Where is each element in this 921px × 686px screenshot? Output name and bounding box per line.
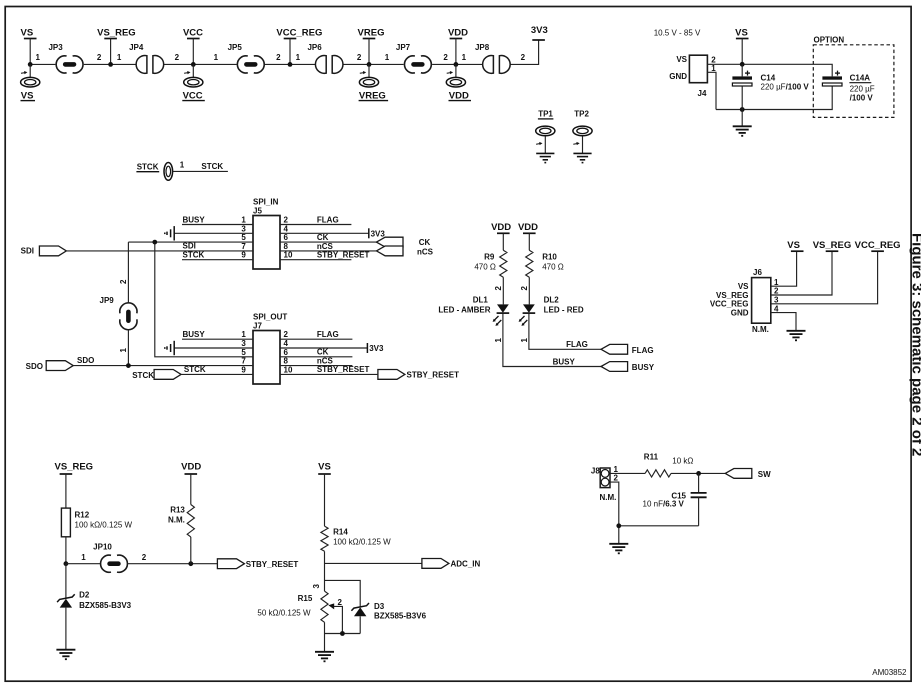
svg-text:LED - AMBER: LED - AMBER [438, 306, 490, 315]
svg-text:SDO: SDO [26, 362, 43, 371]
svg-text:220 µF: 220 µF [850, 85, 875, 94]
node C15 junction [696, 471, 701, 476]
jumper JP10 [93, 543, 127, 573]
arrow SDO input [26, 361, 74, 371]
svg-text:2: 2 [520, 286, 529, 291]
pin 2 JP8 [521, 53, 526, 62]
svg-text:1: 1 [214, 53, 219, 62]
svg-text:4: 4 [284, 339, 289, 348]
svg-text:C14A: C14A [850, 74, 871, 83]
svg-text:1: 1 [774, 278, 779, 287]
net 3V3 power label [531, 25, 548, 40]
svg-text:3: 3 [774, 296, 779, 305]
svg-text:7: 7 [241, 242, 246, 251]
svg-text:R13: R13 [170, 506, 185, 515]
figure caption rotated [909, 233, 921, 456]
arrow SW [725, 469, 771, 480]
svg-text:10: 10 [284, 251, 293, 260]
net VS power label [21, 28, 37, 65]
net VDD power label [448, 28, 468, 65]
svg-text:SPI_OUT: SPI_OUT [253, 313, 287, 322]
svg-text:220 µF/100 V: 220 µF/100 V [761, 83, 810, 92]
diode D2 [57, 564, 132, 610]
svg-text:8: 8 [284, 357, 289, 366]
svg-text:nCS: nCS [317, 242, 334, 251]
svg-text:10: 10 [284, 365, 293, 374]
pin 2 JP10 [142, 553, 147, 562]
svg-text:1: 1 [296, 53, 301, 62]
svg-text:GND: GND [669, 72, 687, 81]
svg-text:JP6: JP6 [307, 43, 322, 52]
svg-text:VS: VS [738, 282, 749, 291]
node R13 junction [188, 561, 193, 566]
connector J5 SPI_IN [253, 198, 280, 270]
wire J8 pin2 to ground rail [610, 482, 699, 544]
svg-text:4: 4 [774, 304, 779, 313]
svg-text:TP2: TP2 [574, 110, 589, 119]
svg-text:J5: J5 [253, 207, 262, 216]
svg-text:AM03852: AM03852 [872, 668, 907, 677]
arrow SDI input [21, 246, 67, 256]
wire J6 pin1 to VS [771, 251, 797, 286]
svg-text:JP7: JP7 [396, 43, 411, 52]
wire J5 pin9 STCK [182, 251, 253, 260]
svg-text:ADC_IN: ADC_IN [451, 560, 481, 569]
svg-text:5: 5 [241, 348, 246, 357]
arrow FLAG [601, 344, 654, 354]
resistor R13 [168, 505, 194, 537]
svg-text:1: 1 [462, 53, 467, 62]
wire J6 pin2 to VS_REG [771, 251, 832, 295]
svg-text:VDD: VDD [449, 90, 469, 101]
svg-text:1: 1 [119, 348, 128, 353]
svg-text:STCK: STCK [183, 251, 205, 260]
svg-text:JP9: JP9 [100, 296, 115, 305]
svg-text:STCK: STCK [132, 371, 154, 380]
svg-text:R14: R14 [333, 528, 348, 537]
pin 3 J6 [774, 296, 779, 305]
jumper JP6 [307, 43, 342, 73]
svg-text:TP1: TP1 [538, 110, 553, 119]
svg-text:N.M.: N.M. [168, 516, 185, 525]
ground below D2 [56, 650, 75, 660]
wire DL2 to FLAG [529, 314, 601, 350]
pin 1 JP9 [119, 348, 128, 353]
svg-text:1: 1 [614, 465, 619, 474]
node SDO junction [126, 363, 131, 368]
svg-text:2: 2 [276, 53, 281, 62]
wire J4 pin2 to C14/C14A [707, 64, 832, 76]
resistor R9 [474, 250, 507, 277]
svg-text:9: 9 [241, 365, 246, 374]
svg-text:2: 2 [142, 553, 147, 562]
wire R15 to ground [324, 634, 326, 652]
node VCC junction [191, 62, 196, 67]
svg-text:VS_REG: VS_REG [813, 240, 852, 251]
wire J4 pin1 down to gnd rail [707, 72, 832, 109]
ground at J5 pin3 [165, 224, 253, 240]
jumper JP7 [396, 43, 431, 73]
svg-text:2: 2 [521, 53, 526, 62]
wire J5 pin2 FLAG [280, 215, 351, 224]
wire J7 pin1 BUSY [182, 330, 253, 339]
pin 1 STCK [180, 161, 185, 170]
testpoint VCC [182, 64, 205, 101]
svg-text:BUSY: BUSY [632, 363, 655, 372]
net STCK label [201, 162, 223, 171]
svg-text:VS_REG: VS_REG [716, 291, 748, 300]
svg-text:JP10: JP10 [93, 543, 112, 552]
net VS power label at R14 [318, 461, 331, 526]
wire top rail [30, 40, 538, 64]
wire J6 pin4 to ground [771, 313, 796, 331]
svg-text:100 kΩ/0.125 W: 100 kΩ/0.125 W [333, 538, 391, 547]
svg-text:J8: J8 [591, 467, 600, 476]
svg-text:3V3: 3V3 [369, 344, 384, 353]
svg-text:VCC: VCC [183, 28, 203, 39]
net VCC_REG power label [276, 28, 322, 65]
pin 1 JP3 [35, 53, 40, 62]
node R12/D2/JP10 junction [64, 561, 69, 566]
wire J5 pin4 to 3V3 [280, 224, 385, 238]
net VDD power label at R13 [181, 461, 201, 504]
diode D3 [351, 602, 426, 634]
wire branch to D3 [325, 580, 361, 606]
svg-text:nCS: nCS [417, 247, 434, 256]
svg-text:JP4: JP4 [129, 43, 144, 52]
wire J7 pin4 to 3V3 [280, 339, 384, 353]
svg-text:1: 1 [385, 53, 390, 62]
svg-text:JP3: JP3 [48, 43, 63, 52]
pin 2 JP6 [357, 53, 362, 62]
wire R13 to junction [190, 537, 192, 564]
pin 1 DL1 [494, 338, 503, 343]
svg-text:N.M.: N.M. [752, 325, 769, 334]
svg-text:SDI: SDI [183, 242, 196, 251]
net VS power label at J6 [787, 240, 803, 251]
svg-text:R11: R11 [644, 453, 659, 462]
svg-text:2: 2 [711, 56, 716, 65]
arrow CK [376, 237, 430, 247]
svg-text:BUSY: BUSY [553, 357, 576, 366]
svg-text:1: 1 [117, 53, 122, 62]
svg-text:JP5: JP5 [228, 43, 243, 52]
svg-text:SW: SW [758, 470, 771, 479]
svg-text:STBY_RESET: STBY_RESET [407, 371, 460, 380]
pin 1 JP8 [462, 53, 467, 62]
svg-text:BZX585-B3V3: BZX585-B3V3 [79, 601, 132, 610]
wire R15 bottom rail [325, 622, 361, 633]
wire J5 pin10 STBY_RESET [280, 251, 369, 260]
net VDD power label at R10 [518, 222, 538, 250]
pin 2 JP5 [276, 53, 281, 62]
net VCC power label [183, 28, 203, 65]
wire STCK to J7 pin9 [181, 365, 253, 374]
svg-text:Figure 3: schematic page 2 of: Figure 3: schematic page 2 of 2 [909, 233, 921, 456]
node VREG junction [367, 62, 372, 67]
pin 2 DL1 [494, 286, 503, 291]
svg-text:JP8: JP8 [475, 43, 490, 52]
wire STCK stub [173, 170, 228, 172]
wire SDO to J7 pin7 [73, 356, 253, 365]
svg-text:4: 4 [284, 224, 289, 233]
capacitor C15 [643, 473, 707, 525]
arrow nCS [376, 246, 433, 256]
svg-text:VREG: VREG [358, 28, 385, 39]
testpoint TP1 [536, 110, 555, 154]
svg-text:VCC_REG: VCC_REG [855, 240, 901, 251]
pin 2 DL2 [520, 286, 529, 291]
svg-text:1: 1 [35, 53, 40, 62]
arrow BUSY [601, 362, 655, 372]
svg-text:2: 2 [357, 53, 362, 62]
testpoint VS [21, 64, 40, 101]
svg-text:3V3: 3V3 [371, 229, 386, 238]
svg-text:DL1: DL1 [473, 296, 489, 305]
ground at J7 pin3 [165, 339, 253, 355]
wire D2 to ground [65, 608, 67, 650]
wire J5 pin1 BUSY [182, 215, 253, 224]
wire JP9 vertical [127, 242, 129, 366]
svg-text:R15: R15 [298, 594, 313, 603]
svg-text:50 kΩ/0.125 W: 50 kΩ/0.125 W [257, 609, 311, 618]
wire J5 pin6 CK [280, 233, 376, 242]
svg-text:2: 2 [284, 330, 289, 339]
resistor R14 [321, 526, 391, 551]
node J5 pin5 junction [152, 240, 157, 245]
wire R12 to junction [65, 537, 67, 564]
node VDD junction [454, 62, 459, 67]
svg-text:470 Ω: 470 Ω [542, 263, 564, 272]
svg-text:10.5 V - 85 V: 10.5 V - 85 V [654, 29, 701, 38]
node VS junction [28, 62, 33, 67]
svg-text:CK: CK [317, 348, 329, 357]
svg-text:3V3: 3V3 [531, 25, 548, 36]
svg-text:VREG: VREG [359, 90, 386, 101]
svg-text:9: 9 [241, 251, 246, 260]
wire R11 to SW [671, 472, 725, 474]
svg-text:VS: VS [318, 461, 331, 472]
capacitor C14 [732, 64, 809, 109]
svg-text:FLAG: FLAG [317, 330, 339, 339]
net VS_REG power label [97, 28, 136, 65]
capacitor C14A [822, 71, 874, 103]
svg-text:nCS: nCS [317, 356, 334, 365]
wire SDI to J5 pin7 [66, 242, 253, 251]
wire J7 pin10 STBY_RESET [280, 365, 377, 374]
pin 1 JP5 [214, 53, 219, 62]
svg-text:VDD: VDD [518, 222, 538, 233]
potentiometer R15 [257, 591, 342, 633]
svg-text:C14: C14 [761, 74, 776, 83]
wire R9 to DL1 [502, 277, 504, 304]
jumper JP9 [100, 296, 138, 330]
svg-text:VCC_REG: VCC_REG [276, 28, 322, 39]
svg-text:1: 1 [180, 161, 185, 170]
label AM03852 [872, 668, 907, 677]
testpoint TP2 [573, 110, 592, 154]
node VS_REG junction [108, 62, 113, 67]
net VDD power label at R9 [491, 222, 511, 250]
pin 1 DL2 [520, 338, 529, 343]
svg-text:3: 3 [241, 339, 246, 348]
node ground rail junction [616, 523, 621, 528]
svg-text:VCC: VCC [183, 90, 203, 101]
svg-text:1: 1 [241, 216, 246, 225]
node wiper junction [340, 631, 345, 636]
svg-text:BZX585-B3V6: BZX585-B3V6 [374, 612, 427, 621]
pin 1 J8 [614, 465, 619, 474]
node gnd rail junction [740, 107, 745, 112]
svg-text:2: 2 [119, 279, 128, 284]
svg-text:2: 2 [338, 598, 343, 607]
pin 1 JP10 [81, 553, 86, 562]
svg-text:STBY_RESET: STBY_RESET [317, 365, 370, 374]
svg-text:R12: R12 [75, 511, 90, 520]
svg-text:LED - RED: LED - RED [544, 306, 584, 315]
svg-text:2: 2 [175, 53, 180, 62]
svg-text:1: 1 [520, 338, 529, 343]
pin 2 JP3 [97, 53, 102, 62]
pin 2 JP9 [119, 279, 128, 284]
pin 4 J6 [774, 304, 779, 313]
ground below J8 [609, 544, 628, 554]
svg-text:VS: VS [21, 90, 34, 101]
connector J6 [710, 268, 771, 334]
net VS power label at J4 [735, 28, 748, 65]
pin 2 JP7 [443, 53, 448, 62]
svg-text:BUSY: BUSY [183, 215, 206, 224]
svg-text:2: 2 [494, 286, 503, 291]
option dashed box [813, 36, 894, 118]
svg-text:N.M.: N.M. [600, 493, 617, 502]
resistor R10 [526, 250, 564, 277]
pin 3 R15 [312, 584, 321, 589]
svg-text:STCK: STCK [137, 162, 159, 171]
pin 2 J6 [774, 287, 779, 296]
svg-text:10 kΩ: 10 kΩ [672, 457, 693, 466]
node VCC_REG junction [288, 62, 293, 67]
pin 1 J6 [774, 278, 779, 287]
arrow STCK input [132, 370, 181, 381]
wire ADC_IN [325, 562, 422, 564]
svg-text:VS: VS [787, 240, 800, 251]
svg-text:VS_REG: VS_REG [55, 461, 94, 472]
svg-text:STCK: STCK [201, 162, 223, 171]
svg-text:STBY_RESET: STBY_RESET [246, 560, 299, 569]
wire J5 pin8 nCS [280, 242, 376, 251]
wire J5 pin5 to JP9 and J7 pin5 [128, 233, 253, 357]
svg-text:VDD: VDD [181, 461, 201, 472]
pin 2 J8 [614, 474, 619, 483]
jumper STCK single pin [136, 162, 172, 180]
svg-text:CK: CK [317, 233, 329, 242]
svg-text:8: 8 [284, 242, 289, 251]
ground TP2 [573, 153, 591, 162]
resistor R12 [61, 508, 132, 537]
svg-text:SPI_IN: SPI_IN [253, 198, 279, 207]
svg-text:7: 7 [241, 357, 246, 366]
svg-text:2: 2 [284, 216, 289, 225]
ground below J6 [787, 331, 806, 341]
svg-text:2: 2 [443, 53, 448, 62]
svg-text:FLAG: FLAG [317, 215, 339, 224]
svg-text:1: 1 [241, 330, 246, 339]
connector J8 [591, 467, 616, 503]
label 10.5 V - 85 V [654, 29, 701, 38]
LED DL2 [519, 296, 584, 326]
net VCC_REG power label at J6 [855, 240, 901, 251]
testpoint VDD [446, 64, 471, 101]
wire J7 pin6 CK [280, 348, 352, 357]
wire JP10 to STBY arrow [127, 563, 217, 565]
testpoint VREG [359, 64, 389, 101]
wire J6 pin3 to VCC_REG [771, 251, 878, 304]
svg-text:CK: CK [419, 238, 431, 247]
svg-text:BUSY: BUSY [183, 330, 206, 339]
svg-text:6: 6 [284, 348, 289, 357]
svg-text:R10: R10 [542, 253, 557, 262]
svg-text:OPTION: OPTION [814, 36, 845, 45]
jumper JP4 [129, 43, 164, 73]
pin 1 JP7 [385, 53, 390, 62]
ground below R15 [315, 652, 334, 662]
svg-text:VS: VS [21, 28, 34, 39]
svg-text:R9: R9 [484, 253, 495, 262]
resistor R11 [644, 453, 694, 478]
svg-text:1: 1 [81, 553, 86, 562]
svg-text:3: 3 [241, 224, 246, 233]
pin 2 J4 [711, 56, 716, 65]
svg-text:VS: VS [676, 55, 687, 64]
arrow STBY_RESET output [378, 370, 459, 380]
svg-text:D3: D3 [374, 602, 385, 611]
svg-text:J4: J4 [698, 89, 707, 98]
wire junction to JP10 [66, 563, 101, 565]
jumper JP8 [475, 43, 510, 73]
svg-text:VDD: VDD [491, 222, 511, 233]
svg-text:J6: J6 [753, 268, 762, 277]
svg-text:SDO: SDO [77, 356, 94, 365]
wire R14 to R15 [324, 551, 326, 591]
svg-text:FLAG: FLAG [566, 340, 588, 349]
net VREG power label [358, 28, 385, 65]
arrow STBY_RESET output bottom [217, 559, 298, 569]
wire DL1 to BUSY [503, 314, 601, 367]
pin 2 JP4 [175, 53, 180, 62]
svg-text:J7: J7 [253, 322, 262, 331]
svg-text:5: 5 [241, 233, 246, 242]
svg-text:2: 2 [614, 474, 619, 483]
jumper JP3 [48, 43, 83, 73]
pin 1 JP4 [117, 53, 122, 62]
svg-text:6: 6 [284, 233, 289, 242]
svg-text:GND: GND [731, 308, 749, 317]
pin 5 J7 [241, 348, 246, 357]
svg-text:10 nF/6.3 V: 10 nF/6.3 V [643, 500, 685, 509]
LED DL1 [438, 296, 509, 326]
svg-text:VS_REG: VS_REG [97, 28, 136, 39]
svg-text:1: 1 [494, 338, 503, 343]
node VS top junction [740, 62, 745, 67]
pin 1 JP6 [296, 53, 301, 62]
svg-text:DL2: DL2 [544, 296, 560, 305]
ground below C14 [733, 110, 752, 136]
svg-text:2: 2 [774, 287, 779, 296]
svg-text:VCC_REG: VCC_REG [710, 300, 749, 309]
svg-text:/100 V: /100 V [850, 94, 874, 103]
net VS_REG power label at R12 [55, 461, 94, 508]
